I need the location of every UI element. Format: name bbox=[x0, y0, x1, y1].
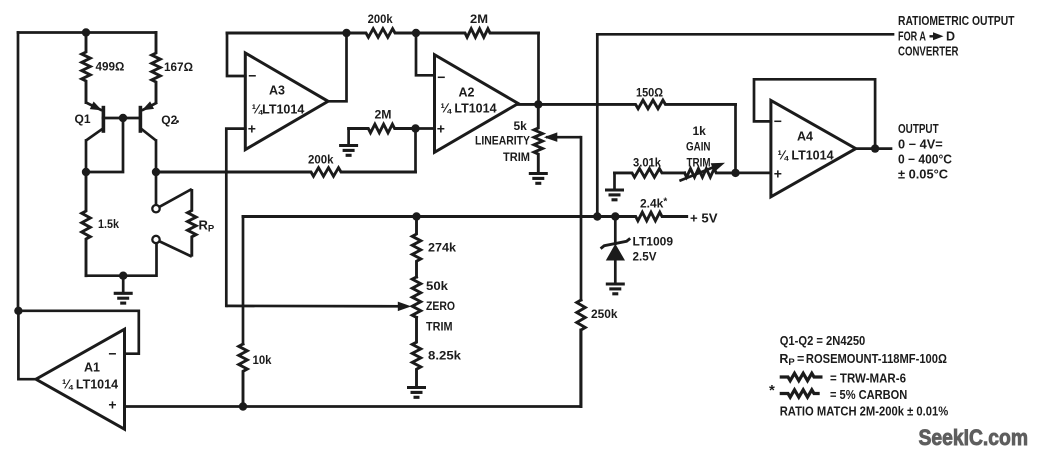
svg-text:A2: A2 bbox=[459, 86, 475, 100]
legend ratio match bbox=[780, 405, 949, 419]
svg-text:SeekIC.com: SeekIC.com bbox=[919, 425, 1029, 450]
label 150&#937; bbox=[636, 86, 663, 100]
label 10k bbox=[253, 353, 272, 367]
label GAIN bbox=[686, 140, 711, 154]
svg-text:+: + bbox=[248, 120, 256, 136]
wire A4 - input loop bbox=[754, 79, 875, 149]
label RATIOMETRIC OUTPUT bbox=[898, 14, 1015, 28]
svg-text:167Ω: 167Ω bbox=[164, 60, 193, 74]
resistor 200k (lower input) bbox=[156, 168, 416, 177]
potentiometer 50k zero trim bbox=[412, 277, 421, 317]
wire reference left corner bbox=[242, 217, 245, 345]
label 50k bbox=[426, 279, 448, 293]
resistor 150&#937; bbox=[518, 100, 735, 109]
ground sensor cell bbox=[114, 276, 133, 303]
svg-text:Q2: Q2 bbox=[161, 113, 177, 127]
svg-text:250k: 250k bbox=[591, 307, 618, 321]
resistor 10k bbox=[239, 344, 248, 407]
wire top rail (A1 output net) bbox=[18, 31, 156, 34]
node A4 output bbox=[871, 144, 879, 152]
label 200k top bbox=[368, 12, 393, 26]
sensor Rp (platinum RTD) bbox=[152, 189, 196, 257]
legend resistor 5% carbon bbox=[769, 382, 907, 402]
node 274k tap bbox=[412, 212, 420, 220]
stray mark after Q2 bbox=[176, 120, 179, 123]
resistor 2M (top feedback) bbox=[416, 29, 539, 38]
node ground tap bbox=[119, 272, 127, 280]
wire far-left vertical bbox=[17, 33, 20, 311]
node top rail / R 499 bbox=[82, 28, 90, 36]
wire A1 output bbox=[18, 311, 36, 379]
svg-text:5k: 5k bbox=[514, 119, 528, 133]
label CONVERTER bbox=[898, 45, 959, 59]
op-amp A3 bbox=[245, 53, 328, 150]
svg-text:RATIOMETRIC OUTPUT: RATIOMETRIC OUTPUT bbox=[898, 14, 1015, 28]
svg-text:+: + bbox=[437, 120, 445, 136]
wire riser to A2 + node bbox=[414, 129, 417, 173]
svg-text:+ 5V: + 5V bbox=[690, 210, 718, 225]
node base rail bbox=[119, 114, 127, 122]
wire A2 + input bbox=[416, 127, 435, 130]
label 8.25k bbox=[428, 349, 461, 363]
label 2M top bbox=[470, 12, 488, 26]
watermark SeekIC.com bbox=[919, 425, 1029, 450]
wire wiper to 250k bbox=[580, 137, 583, 300]
label 3.01k bbox=[633, 156, 661, 170]
wire 3.01k ground lead bbox=[613, 173, 616, 189]
label 499&#937; bbox=[96, 60, 125, 74]
wire A4 output bbox=[856, 147, 891, 150]
svg-text:2.4k*: 2.4k* bbox=[640, 197, 667, 211]
label 167&#937; bbox=[164, 60, 193, 74]
svg-text:0 − 400°C: 0 − 400°C bbox=[898, 152, 952, 166]
resistor 2.4k* bbox=[243, 212, 687, 221]
svg-text:3.01k: 3.01k bbox=[633, 156, 661, 170]
svg-text:FOR A: FOR A bbox=[898, 30, 926, 44]
wire Q1 collector bbox=[85, 141, 88, 173]
svg-text:Q1: Q1 bbox=[75, 112, 91, 126]
resistor 250k bbox=[577, 300, 586, 407]
label Q2 bbox=[161, 113, 177, 127]
svg-text:ZERO: ZERO bbox=[426, 299, 455, 313]
label 274k bbox=[428, 241, 456, 255]
svg-text:A4: A4 bbox=[797, 130, 813, 144]
wire to Rp top terminal bbox=[155, 172, 158, 205]
label 5k bbox=[514, 119, 528, 133]
label + 5V bbox=[690, 210, 718, 225]
resistor 1.5k bbox=[82, 172, 91, 276]
svg-text:LINEARITY: LINEARITY bbox=[475, 136, 530, 148]
wire A3 + input / zero-trim wiper drop bbox=[226, 129, 245, 306]
wire A3 - input loop bbox=[227, 33, 245, 76]
ground at 5k bbox=[529, 174, 548, 184]
diode LT1009 zener bbox=[601, 217, 631, 284]
svg-text:D: D bbox=[946, 30, 955, 44]
ground at 2M bbox=[339, 146, 358, 156]
node A2 output bbox=[534, 100, 542, 108]
wire Q2 collector bbox=[155, 141, 158, 173]
wiper 50k zero trim bbox=[226, 302, 411, 312]
label 250k bbox=[591, 307, 618, 321]
node 10k tap bbox=[239, 402, 247, 410]
label Q1 bbox=[75, 112, 91, 126]
label 0-400C bbox=[898, 152, 952, 166]
label 2M mid bbox=[375, 108, 392, 122]
node Q2 collector bbox=[152, 168, 160, 176]
resistor 3.01k bbox=[615, 169, 685, 178]
svg-text:TRIM: TRIM bbox=[426, 319, 453, 333]
wiper 1k gain trim bbox=[679, 163, 725, 181]
resistor 2M (A2 + to ground) bbox=[349, 124, 416, 133]
legend Q1-Q2 bbox=[780, 334, 866, 348]
label Rp bbox=[199, 218, 215, 235]
svg-text:2.5V: 2.5V bbox=[633, 250, 657, 264]
wire A1 feedback loop bbox=[18, 311, 138, 354]
wire A3 output bbox=[328, 33, 346, 101]
node A2 + input bbox=[411, 124, 419, 132]
wire ratiometric output bbox=[596, 34, 599, 216]
svg-text:499Ω: 499Ω bbox=[96, 60, 125, 74]
label 200k lower bbox=[308, 153, 334, 167]
op-amp A1 bbox=[36, 329, 125, 429]
potentiometer 1k gain trim bbox=[685, 169, 736, 178]
node A2 - input bbox=[412, 29, 420, 37]
label LINEARITY bbox=[475, 136, 530, 148]
transistor Q2 bbox=[140, 101, 157, 140]
legend Rp bbox=[779, 352, 947, 368]
ground at LT1009 bbox=[606, 284, 625, 294]
wire 2M ground lead bbox=[347, 129, 350, 145]
wire base-to-collector drop bbox=[88, 118, 123, 172]
svg-text:TRIM: TRIM bbox=[687, 155, 711, 169]
label 1k bbox=[693, 124, 707, 138]
wire base rail bbox=[103, 117, 141, 120]
svg-text:1k: 1k bbox=[693, 124, 707, 138]
svg-text:¼ LT1014: ¼ LT1014 bbox=[440, 102, 496, 116]
label 0-4V bbox=[898, 137, 943, 151]
svg-text:=: = bbox=[797, 352, 804, 366]
node ratiometric tap bbox=[593, 212, 601, 220]
svg-text:+: + bbox=[774, 165, 782, 181]
ground at 8.25k bbox=[407, 388, 426, 398]
svg-text:2M: 2M bbox=[470, 12, 488, 26]
svg-text:−: − bbox=[248, 68, 256, 84]
node A4 + input bbox=[731, 169, 739, 177]
resistor 8.25k bbox=[412, 317, 421, 385]
wiper 5k linearity trim bbox=[544, 132, 581, 142]
wire ratiometric horizontal bbox=[597, 33, 893, 36]
ground at 3.01k bbox=[605, 190, 624, 200]
label ZERO bbox=[426, 299, 455, 313]
label TRIM (zero) bbox=[426, 319, 453, 333]
svg-text:A3: A3 bbox=[269, 84, 285, 98]
wire A2 - input drop bbox=[416, 33, 435, 75]
svg-text:200k: 200k bbox=[368, 12, 393, 26]
svg-text:8.25k: 8.25k bbox=[428, 349, 461, 363]
svg-text:GAIN: GAIN bbox=[686, 140, 711, 154]
svg-text:−: − bbox=[774, 113, 782, 129]
svg-text:ROSEMOUNT-118MF-100Ω: ROSEMOUNT-118MF-100Ω bbox=[806, 352, 947, 366]
svg-text:1.5k: 1.5k bbox=[98, 217, 119, 231]
node LT1009 tap bbox=[611, 212, 619, 220]
label 1.5k bbox=[98, 217, 119, 231]
node A1 output bbox=[14, 307, 22, 315]
transistor Q1 bbox=[86, 102, 103, 141]
svg-text:CONVERTER: CONVERTER bbox=[898, 45, 959, 59]
svg-text:RATIO MATCH 2M-200k ± 0.01%: RATIO MATCH 2M-200k ± 0.01% bbox=[780, 405, 949, 419]
legend resistor TRW-MAR-6 bbox=[780, 371, 906, 385]
svg-text:10k: 10k bbox=[253, 353, 272, 367]
svg-text:0 − 4V=: 0 − 4V= bbox=[898, 137, 943, 151]
wire sensor cell bottom bbox=[86, 243, 157, 276]
svg-text:−: − bbox=[437, 69, 445, 85]
svg-text:¼ LT1014: ¼ LT1014 bbox=[777, 149, 833, 163]
label OUTPUT bbox=[898, 122, 939, 136]
label FOR A to D bbox=[898, 30, 955, 44]
wire A2 feedback drop bbox=[537, 33, 540, 104]
svg-text:A1: A1 bbox=[84, 361, 100, 375]
svg-text:200k: 200k bbox=[308, 153, 334, 167]
label LT1009 bbox=[633, 235, 674, 249]
svg-text:± 0.05°C: ± 0.05°C bbox=[898, 168, 948, 182]
svg-text:Q1-Q2 = 2N4250: Q1-Q2 = 2N4250 bbox=[780, 334, 866, 348]
op-amp A4 bbox=[771, 100, 856, 196]
wire bottom (A1 + input) bbox=[125, 330, 581, 407]
svg-text:TRIM: TRIM bbox=[503, 152, 530, 164]
label TRIM (gain) bbox=[687, 155, 711, 169]
node Q1 collector bbox=[82, 168, 90, 176]
svg-text:2M: 2M bbox=[375, 108, 392, 122]
wire 150&#937; drop bbox=[734, 104, 737, 172]
resistor 274k bbox=[412, 217, 421, 278]
wire A4 + input bbox=[736, 172, 771, 175]
svg-text:*: * bbox=[769, 382, 775, 399]
resistor 499&#937; bbox=[82, 33, 91, 103]
label 0.05C bbox=[898, 168, 948, 182]
svg-text:¼ LT1014: ¼ LT1014 bbox=[62, 378, 118, 392]
svg-text:50k: 50k bbox=[426, 279, 448, 293]
svg-text:¼LT1014: ¼LT1014 bbox=[252, 103, 305, 117]
svg-text:LT1009: LT1009 bbox=[633, 235, 674, 249]
svg-text:= 5% CARBON: = 5% CARBON bbox=[830, 388, 907, 402]
potentiometer 5k bbox=[534, 104, 543, 171]
resistor 200k (top, ratio-matched) bbox=[227, 29, 416, 38]
svg-text:= TRW-MAR-6: = TRW-MAR-6 bbox=[830, 371, 906, 385]
node A3 output / 200k bbox=[342, 29, 350, 37]
svg-text:150Ω: 150Ω bbox=[636, 86, 663, 100]
label TRIM (linearity) bbox=[503, 152, 530, 164]
svg-text:+: + bbox=[108, 396, 116, 412]
svg-text:OUTPUT: OUTPUT bbox=[898, 122, 939, 136]
svg-text:−: − bbox=[108, 345, 116, 361]
op-amp A2 bbox=[435, 55, 519, 153]
label 2.4k* bbox=[640, 197, 667, 211]
label 2.5V bbox=[633, 250, 657, 264]
resistor 167&#937; bbox=[152, 33, 161, 103]
svg-text:274k: 274k bbox=[428, 241, 456, 255]
